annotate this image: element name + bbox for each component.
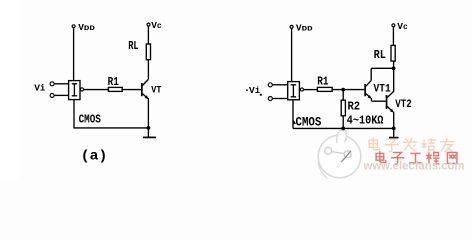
svg-text:R1: R1: [317, 74, 328, 88]
svg-text:VT: VT: [151, 84, 161, 96]
svg-text:Vi: Vi: [249, 85, 261, 96]
svg-text:VT2: VT2: [395, 99, 411, 111]
svg-text:(a): (a): [81, 148, 108, 164]
svg-text:RL: RL: [374, 48, 386, 62]
svg-text:RL: RL: [128, 39, 138, 53]
svg-text:Vc: Vc: [151, 20, 162, 31]
svg-text:Vi: Vi: [34, 83, 46, 94]
svg-text:www.elecfans.com: www.elecfans.com: [363, 159, 465, 172]
svg-text:CMOS: CMOS: [79, 113, 101, 127]
svg-text:R2: R2: [348, 100, 361, 114]
svg-text:R1: R1: [108, 75, 119, 89]
svg-text:Vc: Vc: [397, 21, 408, 32]
svg-text:CMOS: CMOS: [296, 116, 322, 130]
svg-text:VT1: VT1: [374, 83, 391, 95]
svg-text:4~10KΩ: 4~10KΩ: [347, 113, 384, 127]
